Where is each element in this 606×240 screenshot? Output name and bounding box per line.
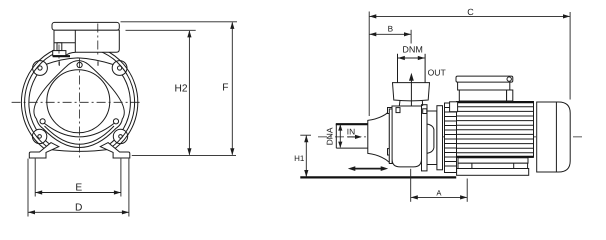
svg-text:DNM: DNM bbox=[402, 44, 423, 54]
svg-text:D: D bbox=[75, 203, 82, 214]
svg-text:DNA: DNA bbox=[324, 127, 334, 145]
svg-text:IN: IN bbox=[347, 126, 355, 136]
svg-text:C: C bbox=[467, 7, 474, 17]
svg-text:OUT: OUT bbox=[428, 67, 447, 77]
svg-text:H1: H1 bbox=[294, 154, 305, 163]
svg-text:H2: H2 bbox=[174, 83, 187, 94]
svg-text:B: B bbox=[388, 24, 394, 33]
svg-text:F: F bbox=[222, 82, 228, 93]
svg-text:E: E bbox=[75, 182, 82, 193]
